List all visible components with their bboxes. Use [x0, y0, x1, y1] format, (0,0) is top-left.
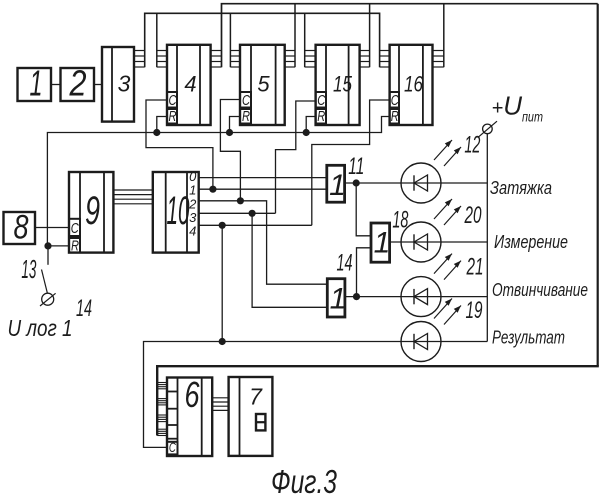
svg-text:C: C	[242, 92, 250, 109]
wire R input block4	[157, 117, 167, 133]
svg-text:12: 12	[464, 132, 480, 159]
svg-text:R: R	[169, 108, 177, 125]
wire block1-block2	[51, 84, 61, 86]
junction R4	[153, 129, 160, 136]
bus ticks block6 inputs	[157, 383, 167, 436]
LED 20 (Измерение)	[401, 222, 441, 262]
junction R15	[303, 129, 310, 136]
bus ticks block15 output	[360, 51, 370, 68]
counter block 4 with C and R inputs	[167, 45, 211, 125]
block 8	[4, 209, 36, 247]
svg-text:15: 15	[333, 72, 353, 97]
label U лог 1	[8, 315, 73, 341]
svg-text:Результат: Результат	[492, 328, 565, 348]
label Измерение	[494, 232, 568, 252]
wire pin4 branch to result line	[221, 225, 223, 341]
bus ticks block15 input	[305, 51, 316, 68]
wire R input block15	[306, 117, 315, 133]
bus ticks block5 input	[230, 51, 240, 68]
LED 19 light arrows	[434, 299, 461, 325]
wire pin3 of block10	[199, 212, 276, 214]
wire right border segment of output bus	[597, 4, 599, 367]
svg-text:U лог 1: U лог 1	[8, 315, 73, 341]
wire C input block15 from pin3	[276, 101, 316, 213]
svg-text:1: 1	[329, 169, 346, 202]
bus ticks block3 output	[134, 51, 145, 68]
wire riser block4 input bus	[156, 13, 158, 67]
bus ticks block5 output	[285, 51, 295, 68]
svg-text:16: 16	[404, 72, 424, 97]
label 20	[464, 202, 482, 229]
wire result line to block6 C input	[144, 342, 488, 448]
LED 12 light arrows	[434, 140, 461, 166]
junction pin4 / result branch	[219, 222, 226, 229]
counter block 16 with C and R inputs	[390, 45, 433, 125]
svg-text:9: 9	[85, 189, 100, 233]
label Отвинчивание	[492, 280, 588, 300]
bus ticks block4 input	[157, 51, 167, 68]
wire top bus rail (inputs from block 3)	[145, 13, 380, 67]
svg-text:R: R	[317, 108, 325, 125]
svg-text:Затяжка: Затяжка	[490, 178, 552, 198]
svg-text:3: 3	[118, 71, 131, 97]
bus ticks block16 output	[433, 51, 444, 68]
svg-text:C: C	[391, 92, 399, 109]
wire riser block16 output bus	[443, 4, 445, 67]
junction R9 / terminal 13 branch	[44, 242, 51, 249]
label 14	[337, 250, 353, 277]
svg-text:1: 1	[330, 283, 347, 316]
svg-text:R: R	[71, 238, 79, 255]
svg-text:+Uпит: +Uпит	[492, 91, 544, 125]
svg-text:R: R	[391, 108, 399, 125]
svg-text:1: 1	[189, 183, 196, 198]
wire riser block15 output bus	[369, 4, 371, 67]
label +Uпит	[492, 91, 544, 125]
svg-text:2: 2	[69, 63, 87, 104]
wire R input block9	[48, 245, 69, 247]
svg-text:C: C	[169, 439, 177, 455]
wire C input block5 from pin2	[220, 100, 240, 201]
svg-text:13: 13	[21, 254, 36, 284]
counter block 5 with C and R inputs	[240, 45, 285, 125]
svg-text:4: 4	[184, 72, 196, 97]
bus block6-block7 (4 lines)	[212, 398, 228, 411]
bus ticks block16 input	[380, 51, 390, 68]
wire riser block5 input bus	[229, 13, 231, 67]
svg-text:11: 11	[348, 153, 364, 180]
wire block18 lower input from block14 output	[357, 248, 372, 297]
wire R input block5	[230, 117, 241, 133]
block 7 digital display	[229, 377, 273, 456]
svg-text:14: 14	[76, 295, 92, 322]
wire riser block15 input bus	[304, 13, 306, 67]
terminal 13 circle with slash	[40, 293, 56, 306]
svg-text:C: C	[169, 92, 177, 109]
block 10 decoder with outputs 0-4	[153, 169, 199, 253]
logic block 14	[327, 279, 346, 317]
svg-text:4: 4	[189, 224, 196, 239]
wire top bus rail (outputs)	[222, 4, 598, 67]
svg-text:1: 1	[374, 227, 391, 260]
logic block 18	[371, 223, 390, 262]
LED 19 (Результат)	[401, 322, 441, 362]
label 19	[466, 297, 483, 324]
label 21	[466, 254, 484, 281]
svg-text:10: 10	[167, 189, 190, 233]
svg-text:21: 21	[466, 254, 484, 281]
wire block11 output to LED 12 row	[345, 182, 488, 184]
svg-text:19: 19	[466, 297, 483, 324]
LED 12 (Затяжка)	[401, 163, 441, 203]
svg-text:1: 1	[30, 63, 43, 104]
terminal 13 switch contact	[42, 270, 48, 293]
counter block 15 with C and R inputs	[316, 45, 360, 125]
wire C input block4 from pin1	[146, 100, 213, 189]
svg-text:8: 8	[14, 209, 29, 247]
svg-text:Фиг.3: Фиг.3	[271, 463, 337, 500]
junction pin2 / C5 riser	[237, 197, 244, 204]
LED 21 light arrows	[434, 254, 461, 280]
svg-text:Отвинчивание: Отвинчивание	[492, 280, 588, 300]
block 3	[102, 47, 134, 122]
wire terminal 13 stem	[47, 246, 49, 265]
caption Фиг.3	[271, 463, 337, 500]
wire block8 to C of block9	[35, 227, 69, 229]
wire block18 output to LED 20 row	[390, 241, 488, 243]
bus block9-block10 (4 lines)	[113, 190, 152, 204]
label 11	[348, 153, 364, 180]
label 18	[392, 207, 408, 234]
svg-text:Измерение: Измерение	[494, 232, 568, 252]
svg-text:7: 7	[249, 384, 263, 410]
wire block11 output to block18 upper input	[356, 183, 371, 236]
wire riser block5 output bus	[294, 4, 296, 67]
wire C input block16 from pin4	[312, 100, 390, 225]
junction block11 output	[353, 179, 360, 186]
label Затяжка	[490, 178, 552, 198]
wire reset line from terminal 13 to R inputs	[47, 117, 389, 246]
svg-text:C: C	[71, 220, 79, 237]
wire +U vertical to LED rows	[486, 134, 488, 342]
wire pin4 of block10	[199, 224, 312, 226]
label 12	[464, 132, 480, 159]
wire pin0 of block10 to block11	[199, 177, 327, 179]
label Результат	[492, 328, 565, 348]
block 6 indicator driver with C input	[167, 374, 212, 456]
junction result line / pin4 riser	[219, 338, 226, 345]
junction R5	[226, 129, 233, 136]
logic block 11	[327, 165, 346, 202]
wire pin3 branch to block14 lower input	[252, 213, 327, 307]
svg-text:C: C	[317, 92, 325, 109]
block 2	[61, 63, 95, 104]
svg-text:20: 20	[464, 202, 482, 229]
junction block14 output / block18 branch	[353, 293, 360, 300]
wire pin2 of block10 to block14 upper input	[199, 201, 328, 284]
block 1	[18, 63, 52, 104]
label 13	[21, 254, 36, 284]
block 9 with C and R inputs	[69, 172, 113, 255]
svg-text:5: 5	[257, 72, 270, 97]
wire block14 output to LED 21 row	[345, 296, 487, 298]
wire block2-block3	[94, 84, 102, 86]
label 14 (bottom)	[76, 295, 92, 322]
junction pin1 / C4 riser	[209, 186, 216, 193]
LED 20 light arrows	[434, 199, 461, 225]
svg-text:R: R	[242, 108, 250, 125]
terminal +U power with slash	[478, 121, 497, 137]
LED 21 (Отвинчивание)	[401, 277, 441, 317]
svg-text:6: 6	[185, 374, 201, 415]
wire pin1 of block10 to block11	[199, 188, 327, 190]
wire bottom segment of output bus to block 6	[157, 366, 599, 435]
bus ticks block4 output	[211, 51, 222, 68]
svg-text:14: 14	[337, 250, 353, 277]
junction pin3 / block14 branch	[249, 210, 256, 217]
